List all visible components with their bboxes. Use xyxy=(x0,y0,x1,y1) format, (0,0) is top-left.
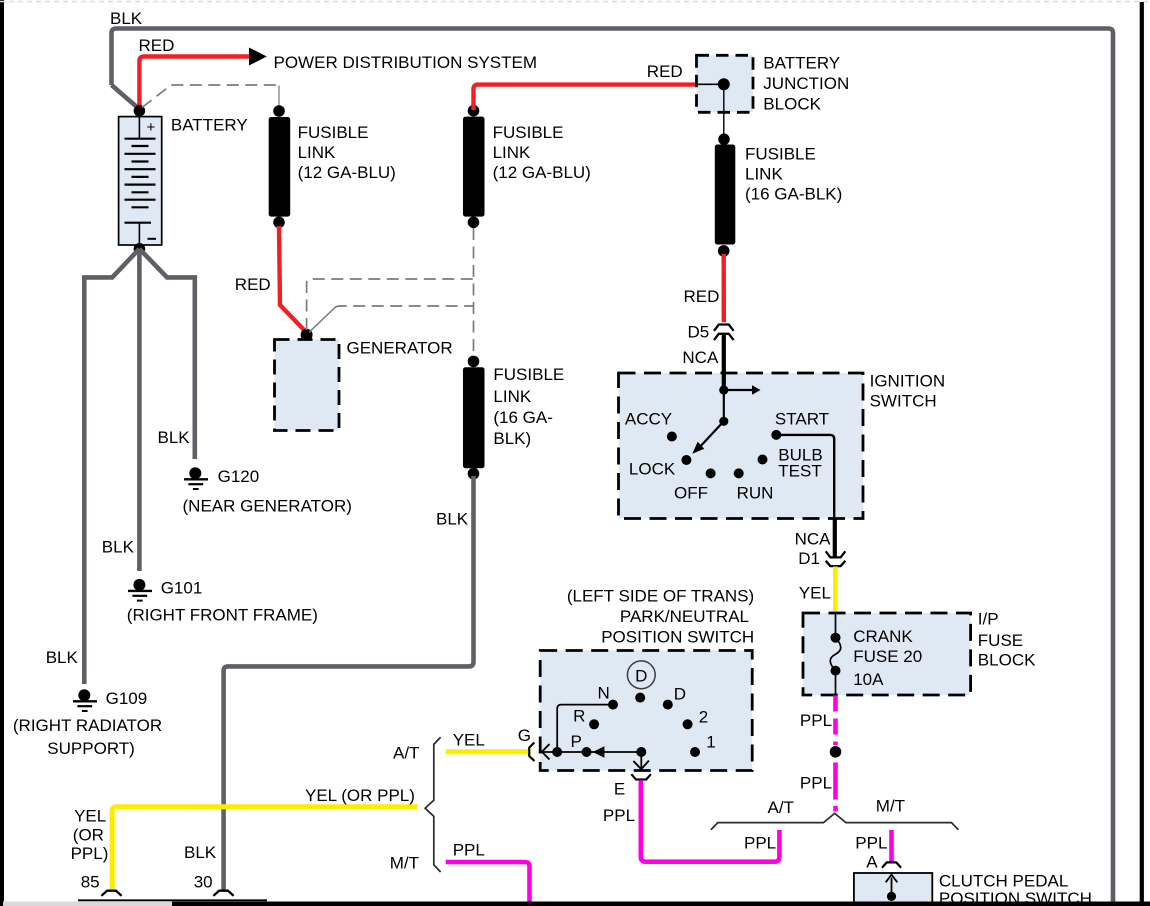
svg-text:BATTERY: BATTERY xyxy=(171,116,248,135)
page border left xyxy=(0,0,4,906)
svg-text:FUSE: FUSE xyxy=(978,631,1023,650)
wire N to G line xyxy=(557,705,613,752)
I/P fuse block box xyxy=(803,613,971,695)
svg-text:(RIGHT RADIATOR: (RIGHT RADIATOR xyxy=(13,716,162,735)
svg-text:BLK: BLK xyxy=(102,537,135,556)
svg-text:BLK: BLK xyxy=(158,428,191,447)
ground G101 xyxy=(128,579,152,601)
svg-text:FUSIBLE: FUSIBLE xyxy=(298,123,369,142)
svg-text:1: 1 xyxy=(706,733,715,752)
svg-text:30: 30 xyxy=(194,873,213,892)
svg-text:G109: G109 xyxy=(106,689,148,708)
svg-text:NCA: NCA xyxy=(795,530,832,549)
fusible link F2 (12 GA-BLU) xyxy=(463,117,485,217)
svg-text:SUPPORT): SUPPORT) xyxy=(47,739,135,758)
connector 30 xyxy=(213,891,233,896)
wire dashed generator node diagonal to F3 xyxy=(309,308,335,333)
svg-text:A/T: A/T xyxy=(393,743,419,762)
wiper arrow down to E xyxy=(640,752,642,768)
svg-text:POWER DISTRIBUTION SYSTEM: POWER DISTRIBUTION SYSTEM xyxy=(274,53,538,72)
connector G xyxy=(529,743,534,762)
svg-text:LINK: LINK xyxy=(298,143,336,162)
svg-text:LINK: LINK xyxy=(745,165,783,184)
svg-text:R: R xyxy=(573,707,585,726)
fusible link F1 top node xyxy=(273,105,285,117)
contact G output xyxy=(552,747,562,757)
svg-text:RED: RED xyxy=(139,36,175,55)
clutch switch arrow xyxy=(887,892,896,901)
fusible link F3 top node xyxy=(468,356,480,368)
svg-text:NCA: NCA xyxy=(682,348,719,367)
park/neutral position switch box xyxy=(540,651,752,771)
contact START xyxy=(771,430,781,440)
clutch pedal position switch box xyxy=(854,873,932,906)
svg-text:A/T: A/T xyxy=(768,798,794,817)
brace A/T-M/T horizontal xyxy=(711,813,959,830)
contact P xyxy=(582,747,592,757)
node battery positive xyxy=(134,105,146,117)
svg-text:YEL: YEL xyxy=(453,730,485,749)
svg-text:BLK: BLK xyxy=(110,9,143,28)
ignition switch box xyxy=(619,373,864,519)
contact ACCY xyxy=(667,432,677,442)
svg-text:LOCK: LOCK xyxy=(629,459,676,478)
svg-text:TEST: TEST xyxy=(778,462,821,481)
svg-text:BLK): BLK) xyxy=(493,429,531,448)
svg-text:PARK/NEUTRAL: PARK/NEUTRAL xyxy=(620,607,749,626)
svg-text:P: P xyxy=(571,732,582,751)
wire G output line xyxy=(543,751,641,753)
svg-text:START: START xyxy=(775,410,829,429)
svg-text:D: D xyxy=(674,685,686,704)
connector 85 xyxy=(101,891,121,896)
svg-text:PPL: PPL xyxy=(855,834,887,853)
svg-text:CLUTCH PEDAL: CLUTCH PEDAL xyxy=(939,871,1068,890)
fusible link F2 top node xyxy=(468,105,480,117)
node junction block xyxy=(718,78,730,90)
connector E xyxy=(631,774,651,779)
svg-text:I/P: I/P xyxy=(978,610,999,629)
fusible link F4 (16 GA-BLK) xyxy=(715,145,736,245)
bottom-left relay box (cut off) xyxy=(3,902,267,906)
svg-text:CRANK: CRANK xyxy=(853,627,913,646)
contact 1 xyxy=(690,747,700,757)
arrow feed right xyxy=(724,389,753,391)
circled D indicator xyxy=(627,661,655,689)
svg-text:RUN: RUN xyxy=(737,483,774,502)
crank fuse xyxy=(835,613,837,638)
svg-text:BLOCK: BLOCK xyxy=(763,95,821,114)
wire dashed battery node to fusible link F1 xyxy=(142,85,277,108)
svg-text:FUSIBLE: FUSIBLE xyxy=(493,123,564,142)
wire START output xyxy=(776,435,834,519)
svg-text:E: E xyxy=(614,780,625,799)
svg-text:D: D xyxy=(635,666,647,685)
svg-text:POSITION SWITCH: POSITION SWITCH xyxy=(601,628,754,647)
svg-text:(12 GA-BLU): (12 GA-BLU) xyxy=(298,163,396,182)
wire YEL D1 to fuse block xyxy=(833,567,838,614)
svg-text:RED: RED xyxy=(684,287,720,306)
arrowhead toward P xyxy=(593,746,605,758)
svg-text:(16 GA-BLK): (16 GA-BLK) xyxy=(745,185,842,204)
svg-text:YEL: YEL xyxy=(799,583,831,602)
svg-text:A: A xyxy=(866,853,878,872)
contact LOCK xyxy=(681,455,691,465)
svg-text:G120: G120 xyxy=(218,467,260,486)
arrow to power distribution system xyxy=(249,48,267,66)
wire dashed generator node up to F2 xyxy=(307,279,474,330)
svg-text:SWITCH: SWITCH xyxy=(870,392,937,411)
contact BULB TEST xyxy=(758,455,768,465)
node ignition feed xyxy=(719,385,728,394)
svg-text:YEL: YEL xyxy=(74,807,106,826)
fusible link F4 top node xyxy=(718,134,730,146)
svg-text:RED: RED xyxy=(235,275,271,294)
wire PPL M/T to bottom xyxy=(446,862,530,902)
wire PPL E to A/T junction xyxy=(641,780,780,862)
connector D1 xyxy=(826,551,846,557)
contact 2 xyxy=(683,719,693,729)
svg-text:RED: RED xyxy=(647,62,683,81)
svg-text:LINK: LINK xyxy=(493,387,531,406)
svg-text:PPL: PPL xyxy=(744,834,776,853)
battery B1 xyxy=(119,117,162,245)
wire PPL splice to brace (dashed) xyxy=(833,763,838,812)
svg-text:G: G xyxy=(518,726,531,745)
battery junction block xyxy=(697,55,754,112)
contact OFF xyxy=(706,468,716,478)
wire junction block internal xyxy=(697,83,724,85)
brace A/T-M/T vertical xyxy=(425,737,441,872)
contact N xyxy=(608,700,618,710)
wire BLK F3 to relay pin 30 xyxy=(224,476,474,890)
node wiper pivot xyxy=(719,417,728,426)
wire YEL A/T to G xyxy=(446,749,531,754)
svg-text:M/T: M/T xyxy=(876,797,905,816)
svg-text:(LEFT SIDE OF TRANS): (LEFT SIDE OF TRANS) xyxy=(567,587,754,606)
svg-text:BLK: BLK xyxy=(46,648,79,667)
ground G109 xyxy=(73,689,97,711)
svg-text:BLK: BLK xyxy=(436,510,469,529)
svg-text:2: 2 xyxy=(699,708,708,727)
svg-text:ACCY: ACCY xyxy=(625,410,672,429)
wire dashed F2 bottom to F3 top xyxy=(473,228,475,360)
svg-text:YEL (OR PPL): YEL (OR PPL) xyxy=(305,786,415,805)
generator box xyxy=(275,340,340,431)
svg-text:JUNCTION: JUNCTION xyxy=(763,74,849,93)
wire PPL fuse to splice (dashed) xyxy=(833,696,838,746)
svg-text:FUSIBLE: FUSIBLE xyxy=(745,145,816,164)
splice node xyxy=(830,746,842,758)
svg-text:OFF: OFF xyxy=(674,483,708,502)
svg-text:G101: G101 xyxy=(161,579,203,598)
svg-text:+: + xyxy=(147,119,156,136)
node generator output xyxy=(301,329,313,341)
wiper arm toward LOCK xyxy=(697,421,724,450)
fusible link F1 (12 GA-BLU) xyxy=(269,117,291,217)
wire RED F4 to D5 xyxy=(722,254,726,322)
wire NCA D5 to ignition switch xyxy=(722,334,726,373)
svg-text:BLK: BLK xyxy=(184,843,217,862)
contact center top xyxy=(635,693,645,703)
contact R xyxy=(589,719,599,729)
wire RED battery to power distribution arrow xyxy=(139,57,250,110)
svg-text:BATTERY: BATTERY xyxy=(763,54,840,73)
svg-text:PPL: PPL xyxy=(800,711,832,730)
wire PPL M/T branch to clutch switch xyxy=(889,830,894,862)
wire BLK battery negative three branches xyxy=(84,249,139,684)
svg-text:PPL: PPL xyxy=(800,774,832,793)
wire YEL (OR PPL) to relay pin 85 xyxy=(112,807,417,890)
contact RUN xyxy=(734,468,744,478)
svg-text:LINK: LINK xyxy=(493,143,531,162)
contact D xyxy=(663,700,673,710)
page border top faint dashed xyxy=(0,1,1150,3)
wire RED F2 to battery junction block xyxy=(474,85,697,110)
svg-text:IGNITION: IGNITION xyxy=(870,372,946,391)
svg-text:(12 GA-BLU): (12 GA-BLU) xyxy=(493,163,591,182)
svg-text:FUSE 20: FUSE 20 xyxy=(853,647,922,666)
svg-text:BLOCK: BLOCK xyxy=(978,651,1036,670)
connector A xyxy=(882,862,901,867)
wire ignition feed xyxy=(722,373,726,390)
wire NCA ignition to D1 xyxy=(833,519,837,557)
svg-text:GENERATOR: GENERATOR xyxy=(347,338,453,357)
svg-text:85: 85 xyxy=(81,873,100,892)
wire RED F1 to generator xyxy=(279,226,307,333)
svg-text:D5: D5 xyxy=(688,323,710,342)
svg-text:D1: D1 xyxy=(798,549,820,568)
svg-text:(NEAR GENERATOR): (NEAR GENERATOR) xyxy=(183,496,352,515)
ground G120 xyxy=(184,467,208,489)
contact E wiper xyxy=(636,747,646,757)
svg-text:PPL: PPL xyxy=(453,840,485,859)
arrowhead at G xyxy=(542,744,550,760)
fusible link F3 (16 GA-BLK) xyxy=(463,367,485,468)
svg-text:10A: 10A xyxy=(853,670,884,689)
svg-text:N: N xyxy=(598,684,610,703)
svg-text:(16 GA-: (16 GA- xyxy=(493,408,553,427)
svg-text:FUSIBLE: FUSIBLE xyxy=(493,365,564,384)
svg-text:PPL: PPL xyxy=(603,806,635,825)
svg-text:PPL): PPL) xyxy=(71,844,109,863)
page border bottom black bar xyxy=(172,902,1150,906)
connector D5 xyxy=(714,325,734,331)
svg-text:M/T: M/T xyxy=(390,853,419,872)
node battery negative xyxy=(134,243,146,255)
svg-text:(OR: (OR xyxy=(73,825,104,844)
page border right xyxy=(1140,2,1144,906)
svg-text:(RIGHT FRONT FRAME): (RIGHT FRONT FRAME) xyxy=(127,605,318,624)
